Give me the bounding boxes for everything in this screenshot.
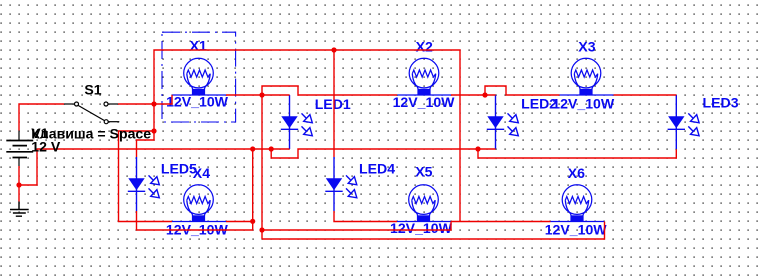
junction X4 right: [250, 219, 255, 224]
wire X5 right pin to X6 left pin: [451, 221, 551, 223]
svg-text:LED3: LED3: [703, 95, 739, 111]
svg-text:X1: X1: [190, 38, 207, 54]
svg-text:LED4: LED4: [359, 161, 395, 177]
wire node A up and top rail to right vertical: [154, 50, 460, 222]
wire hop under LED1 cathode: [271, 149, 478, 158]
junction LED2 cathode: [475, 146, 480, 151]
LED5: [128, 157, 160, 211]
lamp X1: [172, 58, 226, 95]
wire switch to node A: [118, 103, 154, 105]
svg-text:12V_10W: 12V_10W: [390, 220, 453, 236]
svg-text:S1: S1: [84, 81, 101, 97]
wire to LED2 cathode: [478, 148, 496, 150]
wire battery minus to ground: [19, 149, 37, 202]
wire X2 right pin to LED2 anode: [451, 94, 496, 96]
wire X1 right pin to LED1 anode: [226, 94, 290, 96]
selection box around X1: [162, 32, 236, 122]
LED3: [668, 95, 700, 149]
wire node C up to bottom rail: [252, 149, 254, 222]
wire bottom rail to X6 right pin: [262, 222, 605, 240]
wire LED5 cathode to X4 right node: [137, 211, 253, 230]
junction LED2 anode: [482, 92, 487, 97]
wire ground rail: [37, 148, 290, 150]
junction node B: [151, 128, 156, 133]
wire LED1 node down vertical: [261, 95, 263, 239]
LED2: [487, 95, 519, 149]
wire top rail junction down to LED4 anode: [333, 50, 335, 157]
lamp X4: [172, 185, 226, 222]
wire node A down to LED5 anode: [137, 104, 155, 157]
lamp X5: [397, 185, 451, 222]
lamp X6: [551, 185, 605, 222]
LED4: [325, 157, 357, 211]
svg-text:12V_10W: 12V_10W: [552, 95, 615, 111]
LED1: [281, 95, 313, 149]
svg-text:12V_10W: 12V_10W: [545, 221, 608, 237]
switch S1: [64, 102, 119, 124]
junction LED1 anode: [259, 92, 264, 97]
svg-text:X6: X6: [568, 165, 585, 181]
svg-text:X3: X3: [578, 38, 595, 54]
wire X3 right pin to LED3 anode: [614, 94, 677, 96]
ground: [10, 202, 29, 217]
svg-text:X2: X2: [416, 39, 433, 55]
svg-text:12V_10W: 12V_10W: [393, 94, 456, 110]
wire X4 right pin to node C: [226, 221, 253, 223]
junction LED4 top: [331, 47, 336, 52]
junction node D: [259, 227, 264, 232]
svg-text:LED2: LED2: [521, 95, 557, 111]
lamp X3: [560, 58, 614, 95]
battery V1: [6, 131, 33, 167]
junction rail X4 branch: [250, 146, 255, 151]
wire node A to lamp X1 left pin: [154, 95, 172, 104]
junction rail LED1 hop: [269, 146, 274, 151]
wire node B down-left to X4 left pin: [119, 131, 173, 222]
svg-text:LED5: LED5: [161, 160, 197, 176]
junction battery minus: [16, 182, 21, 187]
svg-text:12 V: 12 V: [31, 139, 61, 155]
wire LED4 cathode to X5 left pin: [334, 211, 397, 222]
wire hop over LED2 anode to X3: [485, 86, 560, 95]
wire node D to X5 base: [262, 222, 451, 231]
svg-text:12V_10W: 12V_10W: [166, 94, 229, 110]
wire hop over LED1 anode to X2: [262, 86, 397, 95]
wire battery plus up to switch row: [19, 104, 64, 131]
svg-text:X5: X5: [415, 163, 432, 179]
lamp X2: [398, 58, 452, 95]
wire to LED3 cathode: [478, 149, 676, 158]
svg-text:LED1: LED1: [315, 96, 351, 112]
junction node A: [151, 101, 156, 106]
